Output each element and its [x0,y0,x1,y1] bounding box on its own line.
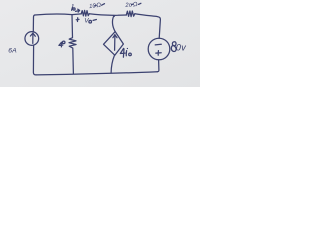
dependent source arrow [114,35,116,50]
svg-text:2o: 2o [124,2,133,9]
label 4i0 [120,48,125,57]
wire below voltage source [157,60,159,72]
wire left vertical lower [33,46,36,75]
current source I1 6A circle [25,32,39,46]
current source I1 arrow [32,33,34,43]
wire top right [135,14,161,39]
label 80v [171,42,176,52]
wire top-left horizontal [35,14,81,15]
dependent current source D1 diamond [104,32,124,56]
wire dependent source branch lower [111,56,114,73]
wire top middle [89,14,126,16]
node junction at top of dependent-source branch [113,15,115,17]
resistor R2 20ohm horizontal zigzag [126,11,135,17]
svg-text:6A: 6A [8,47,17,54]
wire dependent source branch upper [113,15,116,31]
label + V0 - [76,18,79,22]
label 40 [59,42,63,47]
resistor R3 40ohm vertical zigzag with leads [69,15,76,74]
wire bottom [36,72,157,75]
wire left vertical upper [33,15,35,31]
voltage source V1 80V circle [148,38,170,60]
V1 plus sign [156,51,161,56]
arrow i0 [76,10,80,13]
V1 minus sign [155,43,161,46]
label i0 current [72,7,73,10]
resistor R1 10ohm horizontal zigzag [81,10,89,16]
svg-text:0v: 0v [176,43,186,53]
